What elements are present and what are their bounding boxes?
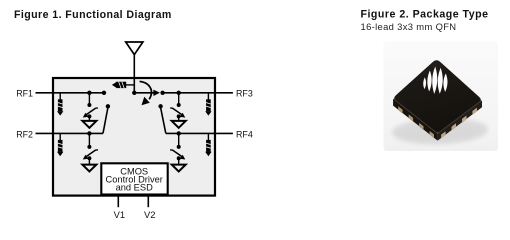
inductor L5 (RF4 shunt) — [205, 133, 211, 156]
wire RF2 — [36, 132, 104, 134]
label RF3 — [236, 89, 253, 99]
package photo background — [384, 42, 499, 152]
node: antenna common node — [132, 91, 136, 95]
inductor L2 (RF1 shunt) — [57, 93, 63, 116]
node: RF4 shunt junction — [177, 131, 181, 135]
wire RF3 — [163, 92, 233, 94]
figure 2 caption — [361, 9, 489, 21]
package side face right — [438, 100, 482, 140]
functional block outline — [53, 78, 215, 196]
svg-text:V2: V2 — [144, 209, 155, 220]
svg-text:RF3: RF3 — [236, 89, 253, 99]
antenna ANT — [126, 42, 143, 93]
package side face left — [393, 99, 438, 141]
package logo (swoosh blades) — [423, 66, 448, 94]
package pads right — [441, 108, 477, 139]
figure 1 caption — [14, 9, 172, 21]
node: RF1 shunt junction — [87, 91, 91, 95]
node: RF2 shunt junction — [87, 131, 91, 135]
svg-text:16-lead 3x3 mm QFN: 16-lead 3x3 mm QFN — [361, 21, 457, 32]
shunt switch SW1 (RF1 to ground) — [83, 93, 98, 121]
switch arm SW-RF4 (series, open) — [158, 104, 165, 133]
svg-text:Figure 2. Package Type: Figure 2. Package Type — [361, 9, 489, 21]
package pads left — [398, 106, 434, 138]
node: RF3 series contact — [160, 91, 164, 95]
label RF4 — [236, 129, 253, 139]
label RF2 — [16, 129, 33, 139]
svg-text:RF2: RF2 — [16, 129, 33, 139]
ground (SW3) — [172, 121, 186, 128]
pin V1 — [114, 195, 125, 221]
node: RF3 shunt junction — [177, 91, 181, 95]
shunt switch SW3 (RF3 to ground) — [170, 93, 185, 121]
switch rotation arrow (curved) — [140, 81, 152, 105]
switch arm SW-RF2 (series, open) — [103, 104, 110, 133]
svg-text:and ESD: and ESD — [116, 183, 153, 193]
ground (SW2) — [82, 165, 96, 172]
shunt switch SW2 (RF2 to ground) — [83, 133, 98, 164]
wire RF4 — [166, 132, 233, 134]
wire RF1 — [36, 92, 105, 94]
pin V2 — [144, 195, 155, 221]
inductor L1 (antenna bleed, arrow left) — [112, 82, 134, 88]
ground (SW1) — [82, 121, 96, 128]
ground (SW4) — [172, 165, 186, 172]
package top face — [394, 61, 481, 134]
svg-text:V1: V1 — [114, 209, 125, 220]
svg-text:RF4: RF4 — [236, 129, 253, 139]
package shadow — [392, 116, 489, 145]
inductor L3 (RF2 shunt) — [57, 133, 63, 156]
svg-text:Figure 1. Functional Diagram: Figure 1. Functional Diagram — [14, 9, 172, 21]
svg-text:RF1: RF1 — [16, 89, 33, 99]
CMOS control driver block U1 — [101, 163, 167, 194]
label RF1 — [16, 89, 33, 99]
node: RF1 series contact — [102, 91, 106, 95]
switch throw arrow (ANT to RF3 contact) — [134, 90, 160, 96]
shunt switch SW4 (RF4 to ground) — [170, 133, 185, 164]
inductor L4 (RF3 shunt) — [205, 93, 211, 116]
figure 2 subcaption — [361, 21, 457, 32]
